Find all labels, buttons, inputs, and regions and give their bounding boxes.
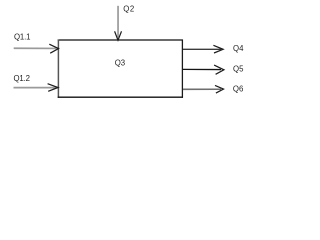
label Q3 xyxy=(115,58,125,67)
svg-text:Q6: Q6 xyxy=(233,85,243,94)
label Q4 xyxy=(233,44,244,53)
svg-text:Q2: Q2 xyxy=(123,4,134,13)
svg-text:Q4: Q4 xyxy=(233,44,244,53)
wire arrow Q1.1 (input, left upper) xyxy=(14,44,59,53)
label Q1.2 xyxy=(14,74,30,83)
label Q1.1 xyxy=(14,33,30,42)
label Q5 xyxy=(233,65,244,74)
label Q6 xyxy=(233,85,243,94)
svg-text:Q1.2: Q1.2 xyxy=(14,74,30,83)
wire arrow Q2 (input, top) xyxy=(115,6,122,40)
svg-text:Q5: Q5 xyxy=(233,65,244,74)
label Q2 xyxy=(123,4,134,13)
wire arrow Q5 (output, right middle) xyxy=(183,65,224,74)
wire arrow Q4 (output, right upper) xyxy=(183,45,223,53)
wire arrow Q6 (output, right lower) xyxy=(183,85,224,93)
svg-text:Q1.1: Q1.1 xyxy=(14,33,30,42)
block Q3 (process box) xyxy=(58,40,183,98)
svg-text:Q3: Q3 xyxy=(115,58,125,67)
wire arrow Q1.2 (input, left lower) xyxy=(14,84,59,92)
